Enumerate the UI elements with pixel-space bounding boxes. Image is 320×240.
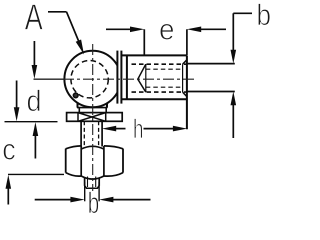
- svg-text:d: d: [27, 85, 42, 118]
- svg-text:b: b: [88, 187, 100, 220]
- svg-text:b: b: [257, 0, 272, 32]
- svg-text:e: e: [159, 14, 175, 47]
- svg-text:A: A: [25, 0, 43, 38]
- svg-text:h: h: [133, 114, 144, 144]
- svg-text:c: c: [2, 134, 16, 167]
